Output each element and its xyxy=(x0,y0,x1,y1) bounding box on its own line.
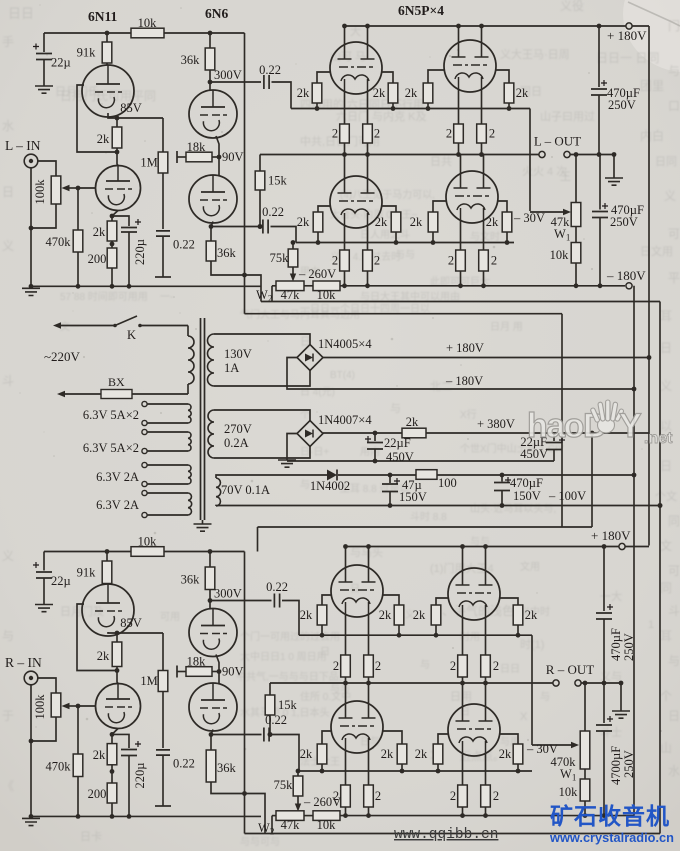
svg-text:日: 日 xyxy=(660,341,672,355)
resistor 10k xyxy=(313,281,340,291)
wire 0.22 down xyxy=(162,755,164,806)
resistor 2 cathode xyxy=(363,124,373,143)
scan crease xyxy=(628,2,680,26)
wire 2 to out rail xyxy=(458,143,460,155)
junction xyxy=(365,152,370,157)
svg-text:91k: 91k xyxy=(77,565,97,579)
svg-text:6.3V 2A: 6.3V 2A xyxy=(96,498,139,512)
wire W2 lead drop R xyxy=(271,816,273,834)
svg-text:6.3V 5A×2: 6.3V 5A×2 xyxy=(83,408,139,422)
wire xyxy=(297,771,299,776)
wire 200 down xyxy=(111,268,113,286)
resistor 2 cathode lower xyxy=(340,250,350,271)
wire 470k down xyxy=(77,777,79,817)
wire 470u to out xyxy=(598,95,600,155)
svg-text:义: 义 xyxy=(2,549,14,563)
svg-text:– 180V: – 180V xyxy=(445,374,483,388)
junction xyxy=(373,431,378,436)
svg-text:文: 文 xyxy=(660,538,672,553)
capacitor 220u xyxy=(121,750,137,756)
bridge rectifier 1N4007x4 xyxy=(297,421,323,447)
wire V2b cathode xyxy=(211,730,213,735)
wire anode pin lower xyxy=(460,155,462,174)
junction xyxy=(29,284,34,289)
junction xyxy=(76,814,81,819)
svg-text:可用: 可用 xyxy=(160,612,180,623)
svg-text:斗: 斗 xyxy=(2,374,14,388)
wire grid stub lower xyxy=(383,731,402,744)
wire 85V node xyxy=(117,632,163,634)
wire 75k to wiper xyxy=(292,267,294,278)
junction xyxy=(209,224,214,229)
svg-text:日同: 日同 xyxy=(655,156,677,168)
power tube 6N5P upper xyxy=(444,40,496,92)
svg-text:250V: 250V xyxy=(610,215,638,229)
resistor 36k lower xyxy=(206,241,216,261)
wire -260V rail xyxy=(261,301,660,303)
wire -100V rail xyxy=(216,505,660,508)
wire grid stub lower xyxy=(433,201,446,212)
svg-text:6.3V 2A: 6.3V 2A xyxy=(96,470,139,484)
triode V1b 6N11 lower xyxy=(96,166,141,211)
wire to 22uF xyxy=(374,433,376,441)
svg-text:日月 用: 日月 用 xyxy=(490,321,523,333)
wire out right network xyxy=(570,154,614,156)
svg-text:10k: 10k xyxy=(138,16,158,30)
svg-text:47k: 47k xyxy=(281,818,301,832)
wire out to 470u lower xyxy=(599,155,601,210)
resistor 2k grid lower xyxy=(428,212,438,232)
resistor 75k R xyxy=(293,776,303,796)
terminal +180V xyxy=(619,543,625,549)
svg-text:6N5P×4: 6N5P×4 xyxy=(398,3,444,18)
wire heater bottom xyxy=(147,514,188,516)
junction xyxy=(366,681,371,686)
wire pot wiper xyxy=(66,705,78,707)
svg-text:《: 《 xyxy=(2,779,14,793)
wire heater top xyxy=(147,492,188,494)
wire 85V node xyxy=(117,117,163,119)
wire 90V to V2b xyxy=(218,157,220,177)
wire jack ground xyxy=(30,168,32,286)
wire 2k to lower rail xyxy=(506,232,508,243)
wire anode pin xyxy=(462,547,464,571)
jack L – IN xyxy=(24,154,38,168)
svg-text:斗: 斗 xyxy=(668,604,680,618)
svg-text:近点点。: 近点点。 xyxy=(460,750,504,763)
wire diode out xyxy=(338,474,416,476)
svg-text:www.qqibb.cn: www.qqibb.cn xyxy=(394,827,498,843)
svg-text:22µ: 22µ xyxy=(51,56,71,70)
wire W2 left lead R xyxy=(272,815,276,817)
wire -100V top xyxy=(437,474,634,476)
power tube 6N5P lower xyxy=(448,704,500,756)
stub bar 18k xyxy=(176,666,178,678)
resistor 2 cathode xyxy=(454,124,464,143)
terminal -180V xyxy=(626,283,632,289)
svg-text:6.3V 5A×2: 6.3V 5A×2 xyxy=(83,441,139,455)
wire 36k to ground rail xyxy=(211,782,265,834)
resistor 2k grid lower xyxy=(433,744,443,764)
wire -180V bus right xyxy=(633,286,635,816)
svg-text:100k: 100k xyxy=(33,694,47,720)
junction xyxy=(217,155,222,160)
svg-text:义: 义 xyxy=(660,379,672,393)
resistor 10k R xyxy=(580,779,590,801)
junction xyxy=(574,283,579,288)
svg-text:与: 与 xyxy=(668,64,680,78)
junction xyxy=(115,116,120,121)
wire xyxy=(116,633,118,642)
wire 130V to bridge xyxy=(214,334,310,345)
junction xyxy=(209,732,214,737)
wire 270V to bridge 2 xyxy=(214,447,310,459)
svg-text:义: 义 xyxy=(2,239,14,253)
svg-text:与: 与 xyxy=(420,659,430,671)
resistor 91k xyxy=(102,42,112,63)
wire mains bottom xyxy=(61,393,101,395)
wire 22uF down xyxy=(374,449,376,461)
svg-text:2k: 2k xyxy=(486,215,499,229)
wire 2k to lower rail xyxy=(321,764,323,771)
arrow W2 wiper xyxy=(290,274,296,282)
svg-text:.net: .net xyxy=(644,430,673,447)
wire grid stub lower xyxy=(318,206,330,212)
svg-text:2k: 2k xyxy=(413,608,426,622)
wire V1a cathode xyxy=(108,632,117,633)
svg-text:义大王马·日周: 义大王马·日周 xyxy=(500,47,570,61)
wire cathode pin xyxy=(485,617,487,655)
wire grid stub xyxy=(496,70,509,83)
wire xyxy=(304,815,313,817)
svg-text:可: 可 xyxy=(668,564,680,578)
resistor 18k xyxy=(186,667,212,677)
svg-text:0.22: 0.22 xyxy=(173,757,195,771)
svg-text:日: 日 xyxy=(460,707,470,718)
wire rail to 91k xyxy=(106,33,108,42)
svg-text:90V: 90V xyxy=(222,150,244,164)
capacitor 220u xyxy=(121,228,137,233)
svg-text:2: 2 xyxy=(491,254,497,268)
svg-text:耳: 耳 xyxy=(660,309,672,323)
svg-text:水: 水 xyxy=(2,119,14,133)
wire anode pin xyxy=(481,26,483,43)
wire anode pin xyxy=(485,547,487,571)
wire to V1b anode xyxy=(117,671,118,684)
arrow W2 wiper R xyxy=(295,804,301,812)
wire 18k to 90V xyxy=(212,156,219,158)
junction xyxy=(291,240,296,245)
heater winding 6.3V 5A×2 xyxy=(188,404,191,423)
paper specks xyxy=(221,131,223,133)
svg-text:2: 2 xyxy=(332,127,338,141)
junction xyxy=(647,355,652,360)
svg-text:个文: 个文 xyxy=(655,489,677,503)
wire to bus corner xyxy=(632,25,649,27)
svg-text:220µ: 220µ xyxy=(133,239,147,265)
wire 2 to out rail xyxy=(344,143,346,155)
svg-text:– 30V: – 30V xyxy=(526,742,558,756)
junction xyxy=(598,283,603,288)
junction xyxy=(483,813,488,818)
wire 2k to grid rail xyxy=(427,103,429,109)
wire switch to primary xyxy=(140,325,188,327)
svg-text:85V: 85V xyxy=(120,101,142,115)
wire 85V to 1M xyxy=(162,118,164,152)
junction xyxy=(127,814,132,819)
svg-text:10k: 10k xyxy=(559,785,579,799)
wire rail to 91k xyxy=(106,552,108,562)
wire anode pin lower xyxy=(345,683,347,704)
svg-text:2k: 2k xyxy=(525,608,538,622)
svg-text:2: 2 xyxy=(446,127,452,141)
resistor 2k V1a cathode xyxy=(112,127,122,148)
svg-text:与: 与 xyxy=(668,654,680,668)
wire 91k to V1a xyxy=(106,583,108,586)
junction xyxy=(342,283,347,288)
junction xyxy=(343,813,348,818)
junction xyxy=(460,544,465,549)
junction xyxy=(320,633,325,638)
triode V1a 6N11 upper xyxy=(82,65,134,117)
svg-text:300V: 300V xyxy=(214,68,242,82)
svg-text:与与: 与与 xyxy=(395,249,415,261)
wire +380 feed lower xyxy=(258,526,593,528)
svg-text:2: 2 xyxy=(448,254,454,268)
junction xyxy=(458,283,463,288)
terminal +180V xyxy=(626,23,632,29)
svg-text:47k: 47k xyxy=(281,288,301,302)
svg-text:470µF: 470µF xyxy=(510,476,543,490)
wire +380V xyxy=(426,432,649,434)
wire bias rail xyxy=(245,313,563,315)
wire B+ vertical bus bottom block xyxy=(244,552,246,834)
svg-text:22µ: 22µ xyxy=(51,574,71,588)
wire 2k to grid rail xyxy=(316,103,318,109)
junction xyxy=(268,732,273,737)
svg-text:2k: 2k xyxy=(97,649,110,663)
svg-text:15k: 15k xyxy=(278,698,298,712)
wire cathode pin xyxy=(344,91,346,124)
wire bottom ground rail xyxy=(31,815,261,817)
junction xyxy=(29,814,34,819)
svg-text:同: 同 xyxy=(660,581,672,595)
wire to V1b grid xyxy=(78,705,96,707)
capacitor 0.22 grid xyxy=(156,231,170,236)
wire output rail xyxy=(270,682,553,684)
resistor 2 cathode lower xyxy=(458,785,468,807)
svg-text:2k: 2k xyxy=(373,86,386,100)
arrow W1 wiper xyxy=(563,209,571,215)
svg-text:2k: 2k xyxy=(300,747,313,761)
potentiometer W1 470k xyxy=(580,731,590,769)
resistor 15k feedback xyxy=(255,171,265,190)
wire primary bottom xyxy=(187,384,189,394)
wire xyxy=(116,118,118,127)
power tube 6N5P upper xyxy=(331,565,383,617)
wire to 36k lower xyxy=(210,227,212,242)
wire V2a cathode xyxy=(216,136,219,157)
svg-text:山: 山 xyxy=(660,741,672,755)
svg-text:2k: 2k xyxy=(410,215,423,229)
capacitor 0.22 coupling lower xyxy=(263,220,268,234)
svg-text:– 260V: – 260V xyxy=(298,267,336,281)
wire +380 drop xyxy=(591,433,593,527)
wire grid stub xyxy=(436,598,448,605)
svg-text:与马头: 与马头 xyxy=(350,546,383,559)
wire out to W1 xyxy=(575,155,577,203)
svg-text:门: 门 xyxy=(668,18,680,33)
wire grid bias rail xyxy=(299,634,532,636)
svg-text:+ 180V: + 180V xyxy=(607,28,647,43)
arrow pot wiper xyxy=(62,185,70,191)
resistor 2k grid xyxy=(312,83,322,103)
svg-text:6N6: 6N6 xyxy=(205,6,228,21)
svg-text:450V: 450V xyxy=(386,450,414,464)
resistor 2k grid lower xyxy=(313,212,323,232)
svg-text:一、手气的浅色: 一、手气的浅色 xyxy=(430,603,514,618)
wire anode pin xyxy=(367,26,369,45)
svg-text:可: 可 xyxy=(668,227,680,241)
wire cathode pin lower xyxy=(460,220,462,250)
svg-text:BX: BX xyxy=(108,375,125,389)
svg-text:口: 口 xyxy=(668,99,680,113)
svg-text:2k: 2k xyxy=(415,747,428,761)
triode V1b 6N11 lower xyxy=(96,684,141,729)
wire pot wiper xyxy=(66,187,78,189)
svg-text:R – IN: R – IN xyxy=(5,655,42,670)
wire xyxy=(116,667,118,671)
resistor 36k anode xyxy=(205,48,215,70)
svg-text:日卡: 日卡 xyxy=(80,830,102,843)
resistor 2k grid xyxy=(504,83,514,103)
wire heater top xyxy=(147,431,188,433)
arrow pot wiper xyxy=(62,703,70,709)
wire 22u to ground xyxy=(43,578,45,605)
junction xyxy=(110,214,115,219)
terminal heater xyxy=(142,512,147,517)
terminal heater xyxy=(142,448,147,453)
wire bridge2 to ground xyxy=(287,434,297,461)
wire 15k down xyxy=(259,190,261,227)
resistor 200 xyxy=(107,783,117,803)
svg-text:+ 180V: + 180V xyxy=(446,341,484,355)
junction xyxy=(658,503,663,508)
junction xyxy=(583,681,588,686)
resistor 2k grid lower xyxy=(317,744,327,764)
junction xyxy=(343,681,348,686)
wire lower grid rail xyxy=(296,242,514,244)
resistor 2k filter xyxy=(402,428,426,438)
svg-text:10k: 10k xyxy=(550,248,570,262)
wire 470u to out R xyxy=(603,619,605,683)
svg-text:义: 义 xyxy=(664,189,676,203)
arrow mains xyxy=(53,322,61,328)
svg-text:文用: 文用 xyxy=(520,560,540,573)
svg-text:270V: 270V xyxy=(224,422,252,436)
wire 0.22 to grid rail xyxy=(272,82,292,109)
wire 2 to bottom rail xyxy=(483,271,485,286)
junction xyxy=(507,106,512,111)
resistor 15k feedback xyxy=(265,695,275,715)
terminal heater xyxy=(142,462,147,467)
wire fuse to primary xyxy=(132,393,188,395)
wire heater bottom xyxy=(147,450,188,452)
wire feed to lower rail xyxy=(257,527,259,552)
wire cathode pin lower xyxy=(344,225,346,250)
junction xyxy=(366,544,371,549)
wire lower grid rail xyxy=(299,770,532,772)
wire V2a cathode xyxy=(216,655,219,672)
svg-text:36k: 36k xyxy=(217,246,237,260)
wire W2 left lead xyxy=(272,285,276,287)
wire 91k to V1a xyxy=(106,63,108,65)
wire V1a grid loop xyxy=(77,604,117,671)
wire out ground stem xyxy=(613,155,615,179)
transformer core xyxy=(201,318,205,520)
wire to V1b grid xyxy=(78,187,96,189)
wire to 0.22 lower R xyxy=(211,734,262,736)
wire -180V supply xyxy=(287,358,634,390)
wire +180V supply xyxy=(323,357,649,359)
svg-text:日共: 日共 xyxy=(430,155,452,168)
wire rail to 10k xyxy=(44,551,131,553)
resistor 1M xyxy=(158,152,168,173)
svg-text:2k: 2k xyxy=(516,86,529,100)
svg-text:2k: 2k xyxy=(375,215,388,229)
resistor 75k xyxy=(288,249,298,267)
wire 1M to 0.22 xyxy=(162,173,164,229)
capacitor 470uF 150V xyxy=(494,483,510,491)
resistor 10k xyxy=(571,243,581,264)
wire cathode pin xyxy=(462,617,464,655)
potentiometer W2 47k R xyxy=(276,811,304,821)
junction xyxy=(366,813,371,818)
wire -30V R xyxy=(532,744,574,746)
junction xyxy=(590,431,595,436)
svg-text:57 88 时间即可用用: 57 88 时间即可用用 xyxy=(60,290,148,303)
svg-text:2: 2 xyxy=(375,659,381,673)
svg-text:日日: 日日 xyxy=(8,6,34,21)
wire 220u down xyxy=(128,756,130,817)
wire 2k to grid rail xyxy=(435,625,437,635)
terminal heater xyxy=(142,429,147,434)
wire 0.22 down xyxy=(162,236,164,277)
wire to V1b anode xyxy=(117,152,118,166)
wire anode pin lower xyxy=(344,155,346,179)
wire xyxy=(292,243,294,250)
junction xyxy=(658,503,663,508)
wire to bus corner xyxy=(625,546,649,548)
svg-text:山头·近马耳以头与,: 山头·近马耳以头与, xyxy=(470,502,556,515)
svg-text:2k: 2k xyxy=(297,215,310,229)
wire out to 15k xyxy=(269,683,271,695)
svg-text:+ 380V: + 380V xyxy=(477,417,515,431)
svg-text:150V: 150V xyxy=(399,490,427,504)
svg-text:于: 于 xyxy=(2,709,14,723)
svg-text:文一: 文一 xyxy=(60,320,80,333)
junction xyxy=(208,549,213,554)
svg-text:15k: 15k xyxy=(268,174,288,188)
ground bridge2 xyxy=(278,460,296,467)
triode V2a 6N6 upper xyxy=(189,90,237,138)
triode V2b 6N6 lower xyxy=(189,175,237,223)
wire 300V node xyxy=(209,70,211,90)
svg-text:2: 2 xyxy=(493,789,499,803)
terminal OUT left xyxy=(539,151,545,157)
wire 0.22 to lower grid rail R xyxy=(272,735,300,772)
svg-text:300V: 300V xyxy=(214,587,242,601)
